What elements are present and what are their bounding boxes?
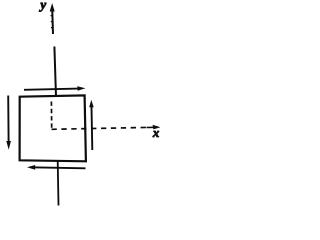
- shear arrow on right face (pointing up): [89, 100, 94, 150]
- y-axis upper line segment: [54, 47, 56, 97]
- y axis label: [39, 3, 46, 12]
- y-axis top arrow: [50, 3, 55, 34]
- square stress element: [20, 95, 86, 161]
- hidden y-axis inside element (dashed): [50, 102, 52, 130]
- shear arrow on left face (pointing down): [6, 96, 11, 150]
- shear arrow on top face (pointing right): [24, 86, 85, 90]
- x-axis solid arrow: [147, 125, 161, 130]
- shear arrow on bottom face (pointing left): [27, 165, 86, 170]
- y-axis lower line segment below element: [57, 161, 60, 206]
- hidden x-axis dashed line: [52, 127, 150, 129]
- x axis label: [153, 131, 159, 137]
